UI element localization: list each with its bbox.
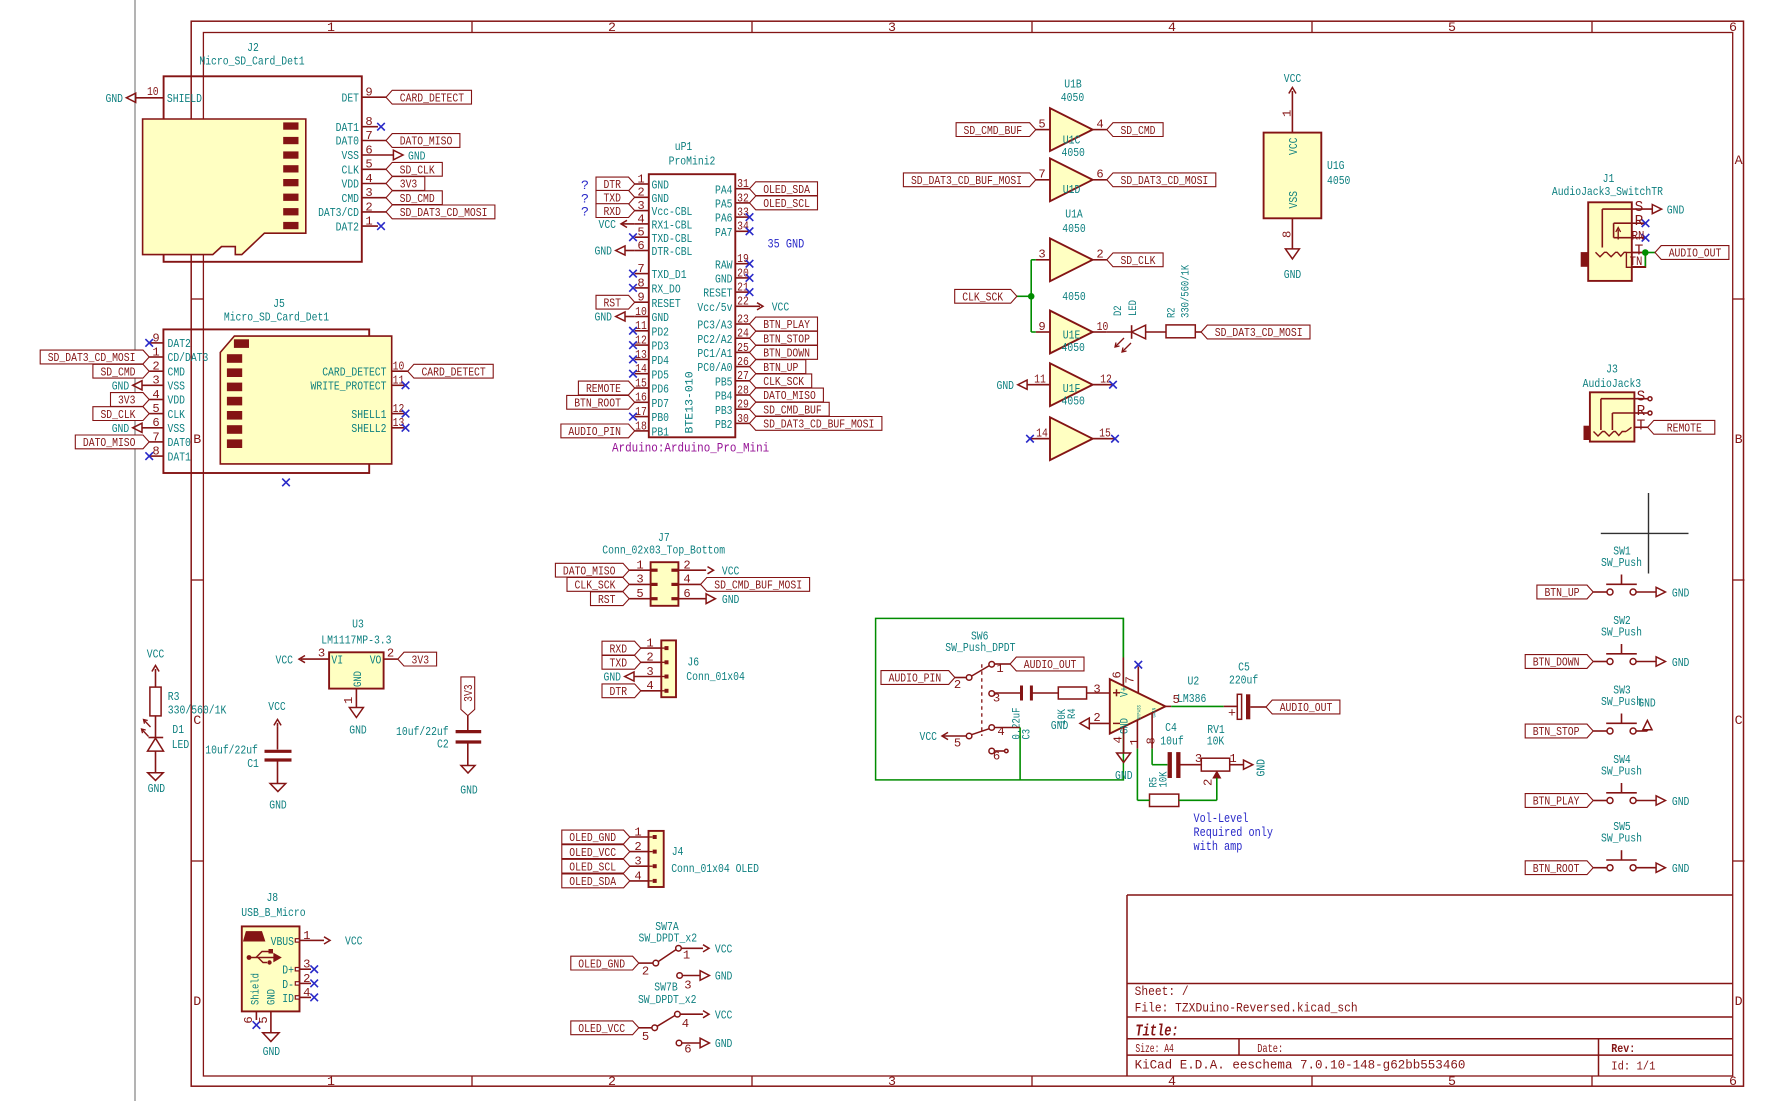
svg-text:2: 2 (637, 186, 644, 200)
svg-text:SD_DAT3_CD_MOSI: SD_DAT3_CD_MOSI (1215, 326, 1303, 340)
svg-text:GND: GND (997, 379, 1015, 393)
svg-text:VSS: VSS (168, 380, 186, 394)
svg-text:5: 5 (1448, 1074, 1456, 1089)
svg-text:Sheet: /: Sheet: / (1135, 984, 1189, 999)
svg-text:LED: LED (1128, 300, 1140, 316)
svg-text:5: 5 (637, 226, 644, 240)
svg-text:GND: GND (353, 671, 365, 687)
svg-text:BTN_ROOT: BTN_ROOT (1533, 862, 1580, 876)
svg-text:BTN_UP: BTN_UP (1544, 586, 1579, 600)
svg-text:10: 10 (635, 305, 647, 319)
svg-text:PD4: PD4 (652, 354, 670, 368)
svg-text:GND: GND (652, 192, 670, 206)
svg-text:Vcc-CBL: Vcc-CBL (652, 205, 693, 219)
svg-text:2: 2 (683, 558, 690, 572)
svg-text:D2: D2 (1113, 305, 1125, 316)
svg-text:5: 5 (642, 1030, 649, 1044)
svg-text:VCC: VCC (345, 935, 363, 949)
svg-text:Size: A4: Size: A4 (1135, 1042, 1173, 1056)
svg-text:GND: GND (1667, 203, 1685, 217)
svg-text:GND: GND (1672, 795, 1690, 809)
svg-text:2: 2 (1202, 779, 1216, 786)
svg-text:10: 10 (147, 85, 159, 99)
svg-text:File: TZXDuino-Reversed.kicad_: File: TZXDuino-Reversed.kicad_sch (1135, 1001, 1358, 1016)
svg-text:OLED_SDA: OLED_SDA (569, 875, 616, 889)
svg-text:12: 12 (635, 334, 647, 348)
svg-text:LM386: LM386 (1177, 692, 1206, 706)
svg-text:4: 4 (303, 986, 310, 1000)
svg-text:GND: GND (715, 1037, 733, 1051)
svg-text:GND: GND (722, 593, 740, 607)
svg-text:AUDIO_PIN: AUDIO_PIN (889, 672, 942, 686)
svg-text:AUDIO_PIN: AUDIO_PIN (568, 425, 621, 439)
svg-text:CD/DAT3: CD/DAT3 (168, 351, 209, 365)
svg-text:OLED_VCC: OLED_VCC (569, 846, 616, 860)
svg-text:U1B: U1B (1064, 78, 1082, 92)
svg-text:PB5: PB5 (715, 375, 733, 389)
svg-text:GND: GND (595, 245, 613, 259)
svg-text:GND: GND (1672, 862, 1690, 876)
svg-text:CLK: CLK (342, 164, 360, 178)
svg-text:Conn_01x04: Conn_01x04 (686, 670, 745, 684)
svg-text:SW_Push: SW_Push (1601, 556, 1642, 570)
svg-text:PA6: PA6 (715, 212, 733, 226)
svg-text:31: 31 (737, 177, 749, 191)
svg-text:SD_CMD: SD_CMD (400, 192, 435, 206)
svg-text:DATO_MISO: DATO_MISO (563, 564, 616, 578)
svg-text:PB2: PB2 (715, 418, 733, 432)
svg-text:VCC: VCC (722, 564, 740, 578)
svg-text:GND: GND (263, 1045, 281, 1059)
svg-text:DAT2: DAT2 (336, 220, 359, 234)
svg-text:J3: J3 (1606, 363, 1618, 377)
svg-text:4: 4 (682, 1017, 689, 1031)
svg-text:AUDIO_OUT: AUDIO_OUT (1280, 701, 1333, 715)
svg-text:GND: GND (1284, 268, 1302, 282)
svg-text:OLED_GND: OLED_GND (569, 831, 616, 845)
svg-text:DAT2: DAT2 (168, 337, 191, 351)
svg-text:3: 3 (318, 646, 325, 660)
svg-text:GND: GND (112, 380, 130, 394)
svg-text:OLED_SCL: OLED_SCL (569, 860, 616, 874)
svg-text:VCC: VCC (268, 700, 286, 714)
svg-text:16: 16 (635, 391, 647, 405)
svg-text:SD_CMD_BUF_MOSI: SD_CMD_BUF_MOSI (714, 579, 802, 593)
svg-text:GND: GND (1672, 656, 1690, 670)
svg-text:1: 1 (637, 172, 644, 186)
svg-text:VCC: VCC (599, 218, 617, 232)
svg-text:30: 30 (737, 412, 749, 426)
svg-text:4: 4 (1168, 1074, 1176, 1089)
svg-text:RX_DO: RX_DO (652, 283, 681, 297)
svg-text:SW_DPDT_x2: SW_DPDT_x2 (638, 993, 697, 1007)
svg-text:DAT3/CD: DAT3/CD (318, 206, 359, 220)
svg-text:GND: GND (408, 149, 426, 163)
svg-text:7: 7 (1038, 168, 1045, 182)
svg-text:J4: J4 (672, 845, 684, 859)
svg-text:TXD_D1: TXD_D1 (652, 268, 687, 282)
svg-text:19: 19 (737, 252, 749, 266)
svg-text:OLED_SDA: OLED_SDA (763, 183, 810, 197)
svg-text:OLED_SCL: OLED_SCL (763, 197, 810, 211)
svg-text:13: 13 (635, 348, 647, 362)
svg-text:Micro_SD_Card_Det1: Micro_SD_Card_Det1 (224, 311, 329, 325)
svg-text:PB1: PB1 (652, 426, 670, 440)
svg-text:10uf: 10uf (1160, 735, 1183, 749)
svg-text:BTN_ROOT: BTN_ROOT (574, 397, 621, 411)
svg-text:3V3: 3V3 (462, 684, 476, 702)
svg-text:RXD: RXD (610, 642, 628, 656)
svg-text:1: 1 (634, 825, 641, 839)
svg-text:D1: D1 (172, 723, 184, 737)
svg-text:D+: D+ (282, 964, 294, 978)
svg-text:GND: GND (267, 989, 279, 1005)
svg-text:RESET: RESET (652, 297, 681, 311)
svg-text:6: 6 (242, 1016, 256, 1023)
svg-text:330/560/1K: 330/560/1K (168, 704, 227, 718)
svg-text:TN: TN (1630, 254, 1643, 269)
svg-text:20: 20 (737, 266, 749, 280)
svg-text:SHELL1: SHELL1 (351, 408, 386, 422)
svg-text:4050: 4050 (1062, 341, 1085, 355)
svg-text:330/560/1K: 330/560/1K (1181, 265, 1193, 318)
svg-text:LED: LED (172, 738, 190, 752)
svg-text:3V3: 3V3 (412, 653, 430, 667)
svg-text:GND: GND (349, 724, 367, 738)
svg-text:4: 4 (1112, 736, 1126, 743)
svg-text:BTE13-010: BTE13-010 (685, 371, 697, 433)
svg-text:B: B (1735, 432, 1743, 447)
svg-text:DATO_MISO: DATO_MISO (763, 389, 816, 403)
svg-text:Date:: Date: (1257, 1042, 1283, 1056)
svg-text:C4: C4 (1165, 721, 1177, 735)
svg-text:V+: V+ (1120, 686, 1132, 697)
svg-text:VCC: VCC (1287, 138, 1301, 156)
svg-text:J2: J2 (247, 41, 259, 55)
svg-text:3: 3 (888, 1074, 896, 1089)
svg-text:BTN_PLAY: BTN_PLAY (1533, 795, 1580, 809)
svg-text:Id: 1/1: Id: 1/1 (1611, 1060, 1655, 1074)
svg-text:SW_Push: SW_Push (1601, 626, 1642, 640)
svg-text:15: 15 (635, 376, 647, 390)
svg-text:Required only: Required only (1194, 825, 1274, 840)
svg-text:4: 4 (683, 573, 690, 587)
svg-text:D: D (1735, 994, 1743, 1009)
svg-text:3V3: 3V3 (400, 178, 418, 192)
svg-text:2: 2 (303, 972, 310, 986)
svg-text:DTR-CBL: DTR-CBL (652, 245, 693, 259)
svg-text:32: 32 (737, 191, 749, 205)
svg-text:TXD: TXD (610, 657, 628, 671)
svg-text:28: 28 (737, 383, 749, 397)
svg-text:LM1117MP-3.3: LM1117MP-3.3 (321, 634, 391, 648)
svg-text:AUDIO_OUT: AUDIO_OUT (1669, 247, 1722, 261)
svg-text:4050: 4050 (1062, 222, 1085, 236)
svg-text:B: B (193, 432, 201, 447)
svg-text:GND: GND (148, 782, 166, 796)
svg-text:TXD-CBL: TXD-CBL (652, 232, 693, 246)
svg-text:33: 33 (737, 206, 749, 220)
svg-text:VSS: VSS (1287, 191, 1301, 209)
svg-text:with amp: with amp (1194, 839, 1243, 854)
svg-text:SD_DAT3_CD_MOSI: SD_DAT3_CD_MOSI (1121, 174, 1209, 188)
svg-text:GND: GND (595, 311, 613, 325)
svg-text:CMD: CMD (168, 365, 186, 379)
svg-text:Vol-Level: Vol-Level (1194, 811, 1249, 826)
svg-text:VCC: VCC (715, 943, 733, 957)
svg-text:CARD_DETECT: CARD_DETECT (400, 91, 464, 105)
svg-text:2: 2 (954, 678, 961, 692)
svg-text:SD_DAT3_CD_MOSI: SD_DAT3_CD_MOSI (400, 206, 488, 220)
svg-text:3: 3 (888, 20, 896, 35)
svg-text:BTN_UP: BTN_UP (763, 361, 798, 375)
svg-text:CARD_DETECT: CARD_DETECT (322, 366, 386, 380)
svg-text:DAT1: DAT1 (336, 121, 359, 135)
svg-text:34: 34 (737, 220, 749, 234)
svg-text:GND: GND (652, 311, 670, 325)
svg-text:7: 7 (637, 262, 644, 276)
svg-text:C2: C2 (437, 738, 449, 752)
svg-text:PB4: PB4 (715, 390, 733, 404)
svg-text:PC0/A0: PC0/A0 (697, 361, 732, 375)
svg-text:3: 3 (1038, 248, 1045, 262)
svg-text:4050: 4050 (1062, 395, 1085, 409)
svg-text:VCC: VCC (1284, 72, 1302, 86)
svg-text:GND: GND (652, 179, 670, 193)
svg-text:GND: GND (269, 799, 287, 813)
svg-text:4: 4 (1096, 117, 1103, 131)
svg-text:6: 6 (1096, 168, 1103, 182)
svg-text:BTN_STOP: BTN_STOP (763, 332, 810, 346)
svg-text:PD6: PD6 (652, 383, 670, 397)
svg-text:4: 4 (634, 869, 641, 883)
svg-text:18: 18 (635, 419, 647, 433)
svg-text:VDD: VDD (168, 394, 186, 408)
svg-text:D: D (193, 994, 201, 1009)
svg-text:8: 8 (1281, 231, 1295, 238)
svg-text:PD5: PD5 (652, 368, 670, 382)
svg-text:CARD_DETECT: CARD_DETECT (421, 365, 485, 379)
svg-text:VDD: VDD (342, 178, 360, 192)
svg-text:2: 2 (387, 646, 394, 660)
svg-text:2: 2 (1096, 248, 1103, 262)
svg-text:J8: J8 (266, 891, 278, 905)
svg-text:Title:: Title: (1135, 1023, 1178, 1042)
svg-text:GND: GND (1638, 697, 1656, 711)
svg-text:BTN_PLAY: BTN_PLAY (763, 318, 810, 332)
svg-text:4: 4 (637, 212, 644, 226)
svg-text:SD_CMD: SD_CMD (100, 365, 135, 379)
svg-text:SW_Push_DPDT: SW_Push_DPDT (945, 641, 1015, 655)
svg-text:VO: VO (370, 653, 382, 667)
svg-text:C1: C1 (247, 757, 259, 771)
svg-text:OLED_VCC: OLED_VCC (578, 1022, 625, 1036)
svg-text:J5: J5 (273, 297, 285, 311)
svg-text:?: ? (581, 205, 589, 220)
svg-text:21: 21 (737, 281, 749, 295)
svg-text:1: 1 (1128, 738, 1142, 745)
svg-text:1: 1 (327, 20, 335, 35)
svg-text:25: 25 (737, 341, 749, 355)
svg-text:2: 2 (608, 1074, 616, 1089)
svg-text:PD2: PD2 (652, 325, 670, 339)
svg-text:DTR: DTR (610, 685, 628, 699)
svg-text:4050: 4050 (1061, 91, 1084, 105)
svg-text:DET: DET (342, 91, 360, 105)
svg-text:5: 5 (1173, 693, 1180, 707)
svg-text:VSS: VSS (168, 422, 186, 436)
svg-text:22: 22 (737, 295, 749, 309)
svg-text:SD_DAT3_CD_MOSI: SD_DAT3_CD_MOSI (48, 351, 136, 365)
svg-text:29: 29 (737, 398, 749, 412)
svg-text:RXD: RXD (603, 205, 621, 219)
svg-text:2: 2 (634, 840, 641, 854)
svg-text:SHELL2: SHELL2 (351, 422, 386, 436)
svg-text:GND: GND (715, 970, 733, 984)
svg-text:SW_Push: SW_Push (1601, 765, 1642, 779)
svg-text:6: 6 (1729, 1074, 1737, 1089)
svg-text:T: T (1637, 418, 1646, 434)
svg-text:GND: GND (1255, 759, 1269, 777)
svg-text:SD_CMD_BUF: SD_CMD_BUF (964, 124, 1023, 138)
svg-text:GND: GND (1120, 718, 1132, 734)
svg-text:VCC: VCC (715, 1008, 733, 1022)
svg-text:23: 23 (737, 312, 749, 326)
svg-text:ProMini2: ProMini2 (669, 154, 716, 168)
svg-text:D-: D- (282, 978, 294, 992)
svg-text:35 GND: 35 GND (768, 237, 805, 252)
svg-text:C5: C5 (1238, 661, 1250, 675)
svg-text:VBUS: VBUS (271, 935, 294, 949)
svg-text:1: 1 (303, 929, 310, 943)
svg-text:1: 1 (636, 558, 643, 572)
svg-text:SW_Push: SW_Push (1601, 832, 1642, 846)
svg-text:1: 1 (327, 1074, 335, 1089)
svg-text:U1G: U1G (1327, 159, 1345, 173)
svg-text:1: 1 (683, 949, 690, 963)
svg-text:Micro_SD_Card_Det1: Micro_SD_Card_Det1 (199, 55, 304, 69)
svg-text:GND: GND (604, 671, 622, 685)
svg-text:17: 17 (635, 405, 647, 419)
svg-text:PD7: PD7 (652, 397, 670, 411)
svg-text:GND: GND (1672, 586, 1690, 600)
svg-text:6: 6 (684, 1043, 691, 1057)
svg-text:USB_B_Micro: USB_B_Micro (241, 906, 305, 920)
svg-text:5: 5 (1448, 20, 1456, 35)
svg-text:CLK_SCK: CLK_SCK (763, 375, 804, 389)
svg-text:9: 9 (1038, 320, 1045, 334)
svg-text:SW_DPDT_x2: SW_DPDT_x2 (639, 931, 698, 945)
svg-text:10: 10 (1097, 320, 1109, 334)
svg-text:GND: GND (1115, 769, 1133, 783)
svg-text:2: 2 (608, 20, 616, 35)
svg-text:BTN_DOWN: BTN_DOWN (1533, 656, 1580, 670)
svg-text:14: 14 (635, 362, 647, 376)
svg-text:VCC: VCC (772, 301, 790, 315)
svg-text:U1A: U1A (1065, 207, 1083, 221)
svg-text:A: A (1735, 153, 1743, 168)
svg-text:VCC: VCC (147, 648, 165, 662)
svg-text:24: 24 (737, 327, 749, 341)
svg-text:U1D: U1D (1063, 183, 1081, 197)
svg-text:4: 4 (1168, 20, 1176, 35)
svg-text:11: 11 (635, 319, 647, 333)
svg-text:RST: RST (598, 593, 616, 607)
svg-text:3V3: 3V3 (118, 394, 136, 408)
svg-text:DATO_MISO: DATO_MISO (400, 135, 453, 149)
svg-text:DATO_MISO: DATO_MISO (83, 436, 136, 450)
svg-text:PC2/A2: PC2/A2 (697, 333, 732, 347)
svg-text:PB3: PB3 (715, 404, 733, 418)
svg-text:DAT0: DAT0 (168, 436, 191, 450)
svg-text:+: + (1228, 706, 1236, 721)
svg-text:RST: RST (603, 296, 621, 310)
svg-text:6: 6 (637, 239, 644, 253)
svg-text:VCC: VCC (920, 730, 938, 744)
svg-text:SD_CLK: SD_CLK (400, 164, 436, 178)
svg-text:3: 3 (634, 855, 641, 869)
svg-text:ID: ID (282, 992, 294, 1006)
svg-text:GND: GND (460, 783, 478, 797)
svg-text:AudioJack3_SwitchTR: AudioJack3_SwitchTR (1552, 185, 1663, 199)
svg-text:5: 5 (636, 587, 643, 601)
svg-text:4050: 4050 (1327, 174, 1350, 188)
svg-text:220uf: 220uf (1229, 674, 1258, 688)
svg-text:GND: GND (1051, 719, 1069, 733)
svg-text:5: 5 (257, 1016, 271, 1023)
svg-text:AudioJack3: AudioJack3 (1583, 377, 1642, 391)
svg-text:4050: 4050 (1062, 146, 1085, 160)
svg-text:U3: U3 (352, 618, 364, 632)
svg-text:DAT1: DAT1 (168, 450, 191, 464)
svg-text:CMD: CMD (342, 192, 360, 206)
svg-text:10K: 10K (1207, 734, 1225, 748)
svg-text:SW_Push: SW_Push (1601, 695, 1642, 709)
svg-text:GND: GND (112, 422, 130, 436)
svg-text:SD_CMD_BUF: SD_CMD_BUF (763, 403, 822, 417)
svg-text:R4: R4 (1067, 708, 1079, 719)
svg-text:SD_CLK: SD_CLK (1120, 254, 1156, 268)
svg-text:8: 8 (1145, 737, 1159, 744)
svg-text:PC3/A3: PC3/A3 (697, 319, 732, 333)
svg-text:R2: R2 (1167, 307, 1179, 318)
svg-text:REMOTE: REMOTE (1667, 422, 1702, 436)
svg-text:RESET: RESET (703, 287, 732, 301)
svg-text:C: C (1735, 713, 1743, 728)
svg-text:PD3: PD3 (652, 340, 670, 354)
svg-text:PB0: PB0 (652, 411, 670, 425)
svg-text:WRITE_PROTECT: WRITE_PROTECT (311, 380, 387, 394)
svg-text:1: 1 (342, 697, 356, 704)
svg-text:SD_CLK: SD_CLK (100, 408, 136, 422)
svg-text:2: 2 (1093, 711, 1100, 725)
svg-text:RAW: RAW (715, 258, 733, 272)
svg-text:VCC: VCC (276, 653, 294, 667)
svg-text:3: 3 (684, 978, 691, 992)
svg-text:4050: 4050 (1062, 290, 1085, 304)
svg-text:PA5: PA5 (715, 198, 733, 212)
svg-text:CLK_SCK: CLK_SCK (575, 579, 616, 593)
svg-text:Conn_02x03_Top_Bottom: Conn_02x03_Top_Bottom (602, 544, 725, 558)
svg-text:7: 7 (1123, 676, 1137, 683)
svg-text:CLK_SCK: CLK_SCK (962, 291, 1003, 305)
svg-text:BTN_DOWN: BTN_DOWN (763, 347, 810, 361)
svg-text:DAT0: DAT0 (336, 135, 359, 149)
svg-text:VSS: VSS (342, 149, 360, 163)
svg-text:uP1: uP1 (675, 140, 693, 154)
svg-text:27: 27 (737, 369, 749, 383)
svg-text:BTN_STOP: BTN_STOP (1533, 725, 1580, 739)
